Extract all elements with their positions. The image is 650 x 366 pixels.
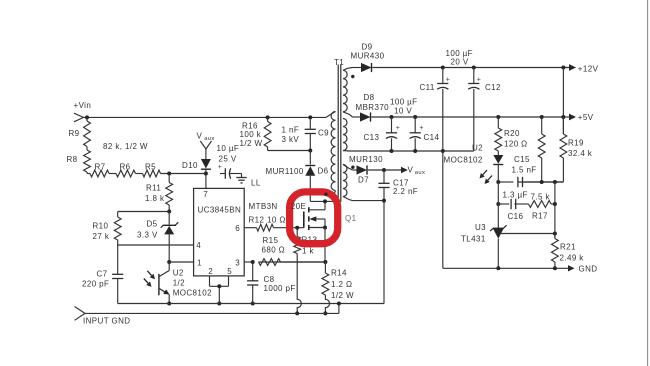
wire R12 to gate [274,227,304,229]
wire R16 bottom link [268,150,311,152]
wire R9-R8 [86,117,88,121]
wire R10 leads [117,212,119,218]
svg-text:32.4 k: 32.4 k [568,149,593,158]
svg-text:D10: D10 [182,161,198,170]
resistor R14 [324,262,326,273]
svg-text:R20: R20 [504,129,520,138]
node gate/R13 [295,226,299,230]
node C11 top [441,66,445,70]
svg-text:D8: D8 [364,93,375,102]
svg-text:R12 10 Ω: R12 10 Ω [249,216,286,225]
svg-text:10 V: 10 V [394,107,412,116]
op-amp U1 UC3845BN box [194,188,245,276]
svg-text:+Vin: +Vin [74,101,92,110]
wire secondary top lead [343,68,353,71]
node R11 top [167,172,171,176]
wire R15 to source [281,261,326,263]
diode D9 MUR430 [353,67,362,69]
opto U2b light arrows [488,176,492,181]
wire R17 right [551,203,555,205]
resistor R21 [554,234,556,239]
svg-text:100 k: 100 k [240,130,262,139]
resistor R8 [84,150,91,172]
svg-text:7.5 k: 7.5 k [531,193,551,202]
wire primary bottom lead [334,191,336,202]
svg-text:R6: R6 [120,163,131,172]
node aux polarity dot [351,166,354,169]
svg-text:C15: C15 [514,155,530,164]
connector INPUT GND [75,307,86,314]
svg-text:2.2 nF: 2.2 nF [393,187,418,196]
node snubber mid [308,149,312,153]
node opto emitter/common [167,302,171,306]
svg-text:LL: LL [251,179,261,188]
zener D5 [168,212,170,225]
svg-text:C14: C14 [424,133,440,142]
svg-text:1.5 nF: 1.5 nF [512,166,537,175]
svg-text:Q1: Q1 [345,214,357,223]
svg-text:+12V: +12V [578,65,599,74]
node C12 top [472,66,476,70]
svg-text:UC3845BN: UC3845BN [198,206,242,215]
transformer T1 core [337,65,339,203]
resistor R15 [259,259,281,266]
svg-text:U2: U2 [173,269,184,278]
node drain [323,199,327,203]
wire aux gnd drop [383,201,385,304]
svg-text:R8: R8 [67,155,78,164]
node C16 row left [496,202,500,206]
svg-text:V: V [197,132,203,141]
svg-text:R10: R10 [93,222,109,231]
resistor R10 [114,217,121,240]
wire aux return [353,200,385,202]
svg-text:MOC8102: MOC8102 [444,156,483,165]
node C11 bottom [441,149,445,153]
wire R11 leads [168,174,170,183]
resistor R19 [562,117,564,134]
input connector +Vin [74,113,84,117]
svg-text:D6: D6 [318,167,329,176]
node TL431 anode [496,266,500,270]
svg-text:R21: R21 [560,243,576,252]
node R17/ref vertical [553,202,557,206]
node pin1/opto [167,260,171,264]
arrow Vaux [384,169,401,171]
node ref/down [553,180,557,184]
svg-text:4: 4 [196,241,201,250]
node mid resistor top [540,115,544,119]
svg-text:U2: U2 [472,144,483,153]
svg-text:R11: R11 [146,184,161,193]
wire pin3 row [244,261,253,263]
svg-text:+: + [218,164,223,171]
wire GND rail [498,267,561,269]
svg-text:C13: C13 [364,133,380,142]
svg-text:+: + [419,125,424,132]
svg-text:C8: C8 [264,275,275,284]
wire secondary common rail [353,150,474,152]
svg-text:220 pF: 220 pF [82,280,109,289]
svg-text:R9: R9 [69,129,80,138]
svg-text:+5V: +5V [578,113,594,122]
node R13/input gnd [295,311,299,315]
resistor R18 (unlabeled) [541,117,543,134]
wire TL431 ref [501,233,555,235]
svg-text:R19: R19 [568,139,584,148]
svg-text:10 µF: 10 µF [217,144,240,153]
frame right edge line [647,0,649,366]
node Q1 source [323,226,327,230]
wire pin6 row [244,227,256,229]
node +12V/R19 branch [561,66,565,70]
node primary polarity dot [324,193,327,196]
resistor R20 [497,117,499,128]
resistor R17 [529,201,552,208]
node +Vin/R9 [85,115,89,119]
svg-text:100 µF: 100 µF [390,98,417,107]
transformer T1 secondary 12V [343,70,347,112]
svg-text:1/2: 1/2 [173,279,185,288]
node +5V/R19 [561,115,565,119]
wire aux top lead [343,165,353,171]
wire +12V rail [443,67,569,69]
diode D8 MBR370 [353,116,361,118]
arrow GND [561,267,568,269]
resistor R13 [296,228,298,237]
node ref [553,232,557,236]
wire TL431 cathode [497,182,499,228]
capacitor C17 [383,170,385,183]
node common/input-gnd link [337,302,341,306]
node secondary polarity dot [351,75,354,78]
arrow +12V [561,67,569,69]
svg-text:1000 pF: 1000 pF [264,284,296,293]
svg-text:INPUT GND: INPUT GND [83,317,130,326]
svg-text:aux: aux [204,136,215,142]
svg-text:3: 3 [235,258,240,267]
diode D6 MUR1100 [309,151,311,165]
svg-text:+: + [477,77,482,84]
svg-text:R5: R5 [145,163,156,172]
resistor R16 [267,117,269,121]
svg-text:R14: R14 [331,269,347,278]
svg-text:6: 6 [235,224,240,233]
wire pins 2+5 bracket [209,276,211,286]
capacitor C15 [517,177,519,187]
svg-text:3 kV: 3 kV [282,135,300,144]
capacitor C12 [473,68,475,84]
svg-text:1.3 µF: 1.3 µF [503,191,528,200]
wire pin7 [205,174,207,189]
wire signal common rail [118,303,385,305]
wire C16 row [498,203,509,205]
opto U2a light arrows [147,271,151,276]
svg-text:TL431: TL431 [461,235,486,244]
node bracket [217,284,221,288]
svg-text:C7: C7 [97,270,108,279]
svg-text:20 V: 20 V [451,58,469,67]
wire secondary gnd drop [442,151,444,268]
svg-text:5: 5 [227,267,232,276]
node D10/Vcc [204,172,208,176]
node source/R14/sense [323,260,327,264]
opto LED U2b [493,155,503,164]
svg-text:2: 2 [208,267,213,276]
svg-text:1 nF: 1 nF [282,126,300,135]
svg-text:1/2 W: 1/2 W [240,139,263,148]
wire C16-R17 [514,203,528,205]
node C14 top [413,115,417,119]
capacitor C11 [442,68,444,84]
svg-text:V: V [408,166,414,175]
wire ref row right [519,181,564,183]
capacitor C8 [252,262,254,281]
capacitor C14 [414,117,416,133]
svg-text:1.2 Ω: 1.2 Ω [331,280,352,289]
svg-text:U3: U3 [475,223,486,232]
node R20 top [496,115,500,119]
wire secondary tap lead [343,112,353,117]
svg-text:20E: 20E [291,202,306,211]
annotation red circle around Q1 [290,192,338,244]
node bracket/common [217,302,221,306]
svg-text:GND: GND [579,265,598,274]
wire R19 riser [562,68,564,135]
node C13 bottom [390,149,394,153]
opto transistor U2a [168,262,170,271]
svg-text:2.49 k: 2.49 k [560,254,585,263]
svg-text:120 Ω: 120 Ω [504,140,528,149]
svg-text:82 k, 1/2 W: 82 k, 1/2 W [103,142,148,151]
node R21 bottom [553,266,557,270]
svg-text:D7: D7 [358,176,369,185]
svg-text:R17: R17 [532,212,548,221]
svg-text:T1: T1 [334,58,344,67]
node C8 bottom [251,302,255,306]
svg-text:D5: D5 [147,220,158,229]
wire R8 to R7 row [86,172,88,174]
svg-text:+: + [396,125,401,132]
svg-text:25 V: 25 V [219,155,237,164]
wire R7-R6 [109,173,116,175]
svg-text:1 k: 1 k [302,247,314,256]
arrow +5V [561,116,569,118]
wire R6-R5 [136,173,143,175]
resistor R11 [166,183,173,206]
svg-text:D9: D9 [362,43,373,52]
wire source to sense [324,228,326,263]
shunt regulator U3 TL431 [493,227,504,229]
diode D7 MUR130 [353,169,357,171]
resistor R6 [116,170,136,177]
wire +Vin rail [84,116,327,118]
transformer T1 aux winding [343,165,347,197]
resistor R12 [257,224,274,231]
ground LL [241,174,243,178]
wire ref row [498,181,513,183]
svg-text:MUR430: MUR430 [351,52,385,61]
capacitor C16 [510,199,512,209]
node R14/input gnd [323,311,327,315]
wire 5V winding bottom lead [343,150,353,153]
svg-text:R7: R7 [95,163,106,172]
node R11/R10/D5 [167,210,171,214]
svg-text:C12: C12 [485,83,501,92]
node C13 top [390,115,394,119]
svg-text:1: 1 [197,258,202,267]
capacitor C13 [391,117,393,133]
capacitor C9 [309,117,311,129]
svg-text:R15: R15 [263,236,279,245]
connector Vaux top [200,141,206,149]
svg-text:+: + [446,77,451,84]
svg-text:MUR1100: MUR1100 [266,167,304,176]
svg-text:MOC8102: MOC8102 [173,289,212,298]
svg-text:1.8 k: 1.8 k [145,194,165,203]
node C14 bottom [413,149,417,153]
svg-text:MTB3N: MTB3N [249,202,278,211]
wire input gnd riser [338,304,340,314]
wire aux bottom lead [343,197,353,201]
svg-text:1/2 W: 1/2 W [331,291,354,300]
svg-text:3.3 V: 3.3 V [137,231,158,240]
svg-text:27 k: 27 k [93,232,110,241]
wire pin4 row [118,244,194,246]
transformer T1 primary [331,112,335,191]
diode D10 [201,159,211,169]
resistor R5 [143,170,161,177]
svg-text:aux: aux [415,170,426,176]
resistor R7 [90,170,109,177]
wire R10 top link [118,211,170,213]
resistor R9 [84,121,91,147]
node R18 bottom [540,180,544,184]
wire INPUT GND line [85,312,339,314]
transformer T1 secondary 5V [343,119,347,151]
svg-text:680 Ω: 680 Ω [262,246,286,255]
wire R5 to Vcc node [161,173,206,175]
node C8 top [251,260,255,264]
wire pin1 row [169,261,193,263]
svg-text:MBR370: MBR370 [356,103,390,112]
node TL431 cathode/C15 [496,180,500,184]
transistor Q1 MTB3N120E [324,201,326,209]
node C9 top [308,115,312,119]
capacitor C7 [117,245,119,274]
node R16 top [266,115,270,119]
wire drain row [310,200,334,202]
svg-text:C16: C16 [508,212,524,221]
svg-text:7: 7 [203,190,208,199]
svg-text:MUR130: MUR130 [349,155,383,164]
svg-text:C11: C11 [420,83,435,92]
wire ref down [554,182,556,239]
node aux return [382,199,386,203]
node Vaux/C17 [382,168,386,172]
svg-text:C9: C9 [318,129,329,138]
